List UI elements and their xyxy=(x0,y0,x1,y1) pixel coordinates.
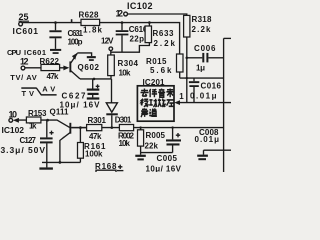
capacitor (cropped) near R168 xyxy=(117,165,123,171)
svg-text:12: 12 xyxy=(116,8,124,18)
node wire: audio mute line xyxy=(71,127,223,129)
svg-text:TV/ AV: TV/ AV xyxy=(10,73,37,82)
IC201 block (Chinese text box) xyxy=(137,78,174,121)
svg-text:100p: 100p xyxy=(68,38,83,47)
junction R161 xyxy=(79,126,82,129)
ground symbol xyxy=(39,167,53,169)
junction R005 tap xyxy=(139,126,141,128)
svg-text:47k: 47k xyxy=(47,72,60,81)
resistor R628 xyxy=(79,10,103,34)
ground rail (R005/C005) xyxy=(141,152,173,154)
resistor R301 xyxy=(87,116,107,141)
transistor Q602 xyxy=(69,53,99,79)
svg-text:1: 1 xyxy=(179,92,184,101)
svg-text:C005: C005 xyxy=(157,154,178,163)
supply 12V xyxy=(101,36,114,55)
ground symbol (R005) xyxy=(135,155,146,161)
capacitor C616 xyxy=(116,23,148,53)
junction C616 xyxy=(121,21,124,24)
wire: R015 bottom to right bus (C016 top rail) xyxy=(180,77,224,79)
junction tick near R628 xyxy=(71,19,73,22)
Chinese text line3 xyxy=(141,108,157,117)
svg-text:10μ/ 16V: 10μ/ 16V xyxy=(146,164,182,172)
junction node C631 xyxy=(54,21,57,24)
svg-text:0.01μ: 0.01μ xyxy=(195,135,220,144)
capacitor C627 xyxy=(60,79,101,110)
svg-text:R633: R633 xyxy=(153,29,175,38)
svg-text:C016: C016 xyxy=(201,82,222,91)
svg-text:IC102: IC102 xyxy=(2,125,25,135)
wire: top rail from pin 25 to corner down into R015 xyxy=(23,23,180,54)
arrow into Q602 base xyxy=(63,66,69,71)
resistor R161 xyxy=(78,142,107,162)
resistor R318 xyxy=(184,15,212,37)
svg-text:22k: 22k xyxy=(145,141,159,150)
Chinese text line1 xyxy=(141,89,174,98)
wire: pin12 to R622 xyxy=(25,67,64,69)
svg-text:0.01μ: 0.01μ xyxy=(190,92,217,101)
junction D301/node xyxy=(111,126,114,129)
capacitor C631 xyxy=(49,23,83,49)
resistor R304 xyxy=(108,55,139,79)
svg-text:R628: R628 xyxy=(79,10,100,19)
TV-AV level waveform xyxy=(21,85,56,99)
capacitor C005 xyxy=(146,128,182,174)
svg-text:CPU: CPU xyxy=(7,48,21,57)
capacitor C016 xyxy=(189,78,222,103)
svg-text:47k: 47k xyxy=(89,132,102,141)
svg-text:1μ: 1μ xyxy=(196,63,205,72)
wire: pin12 IC102 to R318 xyxy=(128,14,187,15)
pin 1 arrow into IC201 box xyxy=(174,92,184,105)
resistor R622 xyxy=(40,57,60,81)
svg-text:D301: D301 xyxy=(115,115,132,124)
svg-text:25: 25 xyxy=(19,12,29,22)
wire: C008 top rail xyxy=(204,149,232,151)
resistor R168 (cropped at bottom) xyxy=(95,162,117,172)
svg-text:3.3μ/ 50V: 3.3μ/ 50V xyxy=(1,145,46,155)
transistor Q111 xyxy=(50,108,72,163)
ground rail (bottom left) xyxy=(42,161,80,163)
svg-text:Q602: Q602 xyxy=(78,63,100,72)
junction C005 tap xyxy=(171,126,173,128)
svg-text:2.2k: 2.2k xyxy=(192,25,212,34)
wire: Q602 emitter rail to R304/D301 column xyxy=(80,78,112,80)
ground (Q602 top) xyxy=(87,56,96,61)
svg-text:100k: 100k xyxy=(85,150,103,159)
capacitor C006 xyxy=(187,44,224,73)
wire: right bus top corner xyxy=(224,37,231,39)
wire: pin1 line to right edge xyxy=(179,102,231,104)
svg-text:R304: R304 xyxy=(118,59,139,68)
svg-text:C127: C127 xyxy=(20,136,37,145)
svg-text:R005: R005 xyxy=(146,131,166,140)
resistor R005 xyxy=(138,128,166,153)
svg-text:5.6k: 5.6k xyxy=(150,66,172,75)
svg-text:IC601: IC601 xyxy=(13,26,39,36)
capacitor C127 xyxy=(1,120,54,162)
resistor R002 xyxy=(118,125,135,148)
svg-text:IC201: IC201 xyxy=(143,78,166,87)
right bus vertical xyxy=(223,38,225,172)
pin 12 of IC601 xyxy=(20,57,29,70)
capacitor C008 + ground xyxy=(195,128,220,160)
svg-text:C006: C006 xyxy=(194,44,216,53)
wire: 12V rail to R633 bottom xyxy=(111,43,150,53)
pin 25 of IC601 xyxy=(13,12,39,36)
diode D301 xyxy=(106,103,132,128)
svg-text:IC102: IC102 xyxy=(127,1,153,11)
svg-text:12: 12 xyxy=(20,57,29,67)
svg-text:R301: R301 xyxy=(88,116,107,125)
wire: Q111 base lead to junction xyxy=(71,127,86,129)
svg-text:2.2k: 2.2k xyxy=(154,39,176,48)
wire: R318 column down to pin1 line xyxy=(186,37,188,103)
svg-text:10k: 10k xyxy=(119,139,131,148)
svg-text:22p: 22p xyxy=(130,34,145,43)
resistor R015 xyxy=(146,54,183,78)
ground (C631) xyxy=(50,49,61,54)
svg-text:R015: R015 xyxy=(146,57,167,66)
svg-text:1k: 1k xyxy=(29,122,37,131)
svg-text:10: 10 xyxy=(9,109,18,119)
svg-text:12V: 12V xyxy=(101,36,114,45)
junction C127 xyxy=(46,119,49,122)
pin 12 of IC102 xyxy=(116,8,128,18)
wire: pin10 to Q111 xyxy=(17,120,70,127)
svg-text:1.8k: 1.8k xyxy=(83,26,103,35)
junction R633 xyxy=(148,21,151,24)
resistor R633 xyxy=(145,23,175,48)
svg-text:R318: R318 xyxy=(192,15,213,24)
Chinese text line2 xyxy=(141,99,174,107)
resistor R153 xyxy=(26,109,47,131)
svg-text:Q111: Q111 xyxy=(50,108,70,117)
wire: down to diode D301 xyxy=(111,79,113,103)
pin 10 of IC102 xyxy=(2,109,25,135)
svg-text:10k: 10k xyxy=(119,68,132,77)
